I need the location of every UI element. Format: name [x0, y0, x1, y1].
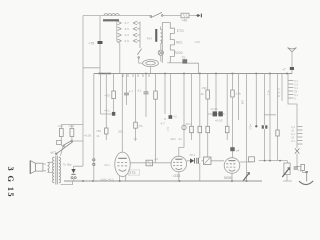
- inductor speaker voice coil: [48, 162, 50, 172]
- resistor R3b: [154, 91, 158, 99]
- svg-text:μ2: μ2: [155, 157, 159, 161]
- wire: x155.5 to V1: [130, 74, 171, 163]
- wire: x246.5 long branch: [246, 74, 248, 182]
- wire: V3 cathode lead: [231, 173, 233, 181]
- wire: bottom return bus: [64, 180, 262, 182]
- capacitor C5: [190, 126, 194, 132]
- svg-text:0,1: 0,1: [294, 79, 298, 83]
- wire: transformer top to switch: [61, 145, 64, 155]
- capacitor C18: [105, 128, 108, 134]
- svg-text:2k: 2k: [201, 92, 205, 96]
- wire: x277.5 branch: [277, 74, 279, 161]
- terminal strip TS1: [288, 81, 293, 99]
- terminal strip TS2: [297, 127, 302, 145]
- capacitor C12 antenna: [290, 67, 294, 70]
- wire: V1 cathode leads: [120, 176, 126, 181]
- svg-text:0,1: 0,1: [294, 86, 298, 90]
- svg-text:2·3: 2·3: [125, 33, 130, 37]
- svg-text:25: 25: [294, 90, 297, 94]
- wire: coil to transformer: [51, 162, 53, 172]
- wire: x207.7 resistor branch: [207, 74, 209, 158]
- svg-text:4n: 4n: [179, 137, 183, 141]
- svg-text:10: 10: [291, 129, 294, 133]
- wire: S3 to rail: [72, 140, 83, 142]
- wire: transformer bottom run: [61, 181, 73, 185]
- svg-text:2·0: 2·0: [125, 39, 130, 43]
- arrow volume control: [243, 173, 250, 182]
- wire: terminal trunk x288: [288, 74, 297, 149]
- switch S2 dial lamp: [137, 49, 141, 59]
- wire: bottom right link y160.6: [259, 160, 288, 162]
- svg-text:≈0,1: ≈0,1: [104, 109, 110, 113]
- svg-text:2,5: 2,5: [294, 83, 298, 87]
- svg-text:0,1: 0,1: [291, 125, 295, 129]
- capacitor C1: [98, 41, 103, 44]
- transformer T2 output: [53, 156, 61, 185]
- svg-text:20n: 20n: [186, 122, 191, 126]
- svg-text:5: 5: [294, 97, 296, 101]
- svg-text:3 G 15: 3 G 15: [6, 167, 15, 198]
- svg-text:20k: 20k: [118, 130, 123, 134]
- wire: x126.5 cap branch: [126, 74, 128, 106]
- pin circles below D1: [71, 177, 73, 179]
- wire: AVC line x100: [100, 74, 111, 115]
- node: crossing X: [295, 148, 300, 153]
- svg-text:0,1: 0,1: [291, 132, 295, 136]
- wire: TB to bus: [187, 63, 198, 73]
- svg-text:≈0,1: ≈0,1: [104, 163, 110, 167]
- pin circle on V2 anode line: [182, 125, 186, 129]
- svg-text:TB: TB: [182, 56, 186, 60]
- resistor R6: [301, 164, 305, 170]
- svg-text:4,7: 4,7: [161, 122, 166, 126]
- model label 3G15: [6, 167, 15, 198]
- wire: X to caps: [297, 154, 301, 167]
- potentiometer P1: [282, 163, 290, 177]
- svg-text:50: 50: [277, 94, 280, 98]
- switch S3 output: [63, 140, 73, 147]
- wire: x282 branch: [281, 74, 283, 102]
- transformer T1 tap column: [162, 23, 174, 63]
- wire: x146 cap branch: [145, 74, 147, 118]
- svg-text:ETO: ETO: [177, 29, 184, 33]
- svg-text:2W: 2W: [202, 86, 207, 90]
- svg-text:∫7k: ∫7k: [138, 124, 143, 128]
- wire: x93.8 drop from bus: [93, 74, 95, 182]
- svg-text:≈4: ≈4: [96, 134, 100, 138]
- wire: x165 branch: [164, 74, 166, 121]
- svg-text:≈0,1: ≈0,1: [249, 124, 253, 130]
- wire: antenna coupling drop x100: [99, 16, 101, 74]
- resistor R4: [206, 90, 210, 99]
- ground chassis symbol: [299, 171, 313, 184]
- inductor L1 mains choke: [103, 14, 119, 22]
- antenna A1: [288, 48, 297, 52]
- wire: x270 branch with elbow: [264, 74, 276, 161]
- wire: pot feed: [283, 161, 292, 181]
- wire: V3 right lead: [240, 161, 252, 163]
- svg-text:R200: R200: [175, 51, 183, 55]
- wire: to ground stem: [303, 171, 307, 173]
- svg-text:μ4: μ4: [236, 149, 240, 153]
- resistor R9: [59, 129, 63, 137]
- capacitor C14: [197, 158, 199, 164]
- wire: x191.5 branch: [191, 74, 193, 141]
- node: junction dot x256: [255, 125, 257, 127]
- svg-text:N0Ξ: N0Ξ: [176, 41, 183, 45]
- wire: decoupling link y114: [208, 113, 225, 115]
- wire: bus heavy segment: [99, 73, 111, 75]
- capacitor C13: [294, 167, 298, 169]
- junction stubs below bus: [123, 74, 149, 78]
- pin circles on x93.8: [93, 159, 95, 161]
- svg-text:4·0: 4·0: [125, 27, 130, 31]
- fuse F1: [181, 13, 189, 18]
- wire: x256.3 branch: [255, 74, 257, 126]
- lamp LP1 dial light: [158, 50, 163, 55]
- capacitor C8 electrolytic: [218, 111, 222, 116]
- wire: selector left feed: [119, 44, 121, 74]
- wire: x135.5 branch: [135, 74, 137, 142]
- wire: detector link: [187, 160, 225, 162]
- wire: x199.8 branch: [199, 74, 201, 182]
- value labels of TS2: [291, 125, 295, 143]
- svg-text:0,1: 0,1: [166, 127, 170, 131]
- capacitor C10: [230, 147, 234, 151]
- svg-text:1M: 1M: [241, 100, 245, 105]
- svg-text:≈0,05: ≈0,05: [84, 133, 92, 137]
- wire: tube V3 anode lead: [232, 74, 234, 158]
- svg-text:0,1: 0,1: [294, 93, 298, 97]
- wire: x264.5 branch: [264, 74, 266, 161]
- svg-text:20n: 20n: [171, 137, 176, 141]
- wire: x227.2 branch: [226, 74, 228, 141]
- svg-text:ZT3: ZT3: [129, 171, 135, 175]
- svg-text:2·7: 2·7: [125, 21, 130, 25]
- svg-text:≈2: ≈2: [174, 115, 178, 119]
- resistor R1: [112, 91, 116, 99]
- value labels on selector rows: [125, 21, 130, 43]
- node: mains plug terminal: [197, 14, 202, 18]
- svg-text:0,1: 0,1: [291, 139, 295, 143]
- resistor R7 hatched: [204, 157, 212, 164]
- wire: selector collector line: [137, 22, 140, 49]
- node: dots on link: [264, 160, 281, 162]
- capacitor C6: [206, 126, 210, 132]
- svg-text:15: 15: [291, 136, 294, 140]
- switch S1 mains: [150, 12, 163, 17]
- svg-text:≈0,05: ≈0,05: [215, 119, 223, 123]
- svg-text:≈50: ≈50: [105, 94, 110, 98]
- speaker LS1: [30, 161, 43, 174]
- capacitor C3: [144, 92, 149, 94]
- svg-text:4·7: 4·7: [129, 90, 134, 94]
- svg-text:R14: R14: [147, 37, 153, 41]
- capacitor C11 pair: [262, 125, 268, 128]
- wire: antenna stem: [291, 52, 293, 74]
- capacitor C19 blob: [169, 115, 173, 119]
- wire: housing to bus: [150, 67, 152, 74]
- capacitor C2: [124, 93, 129, 95]
- svg-text:≈Z33: ≈Z33: [173, 174, 181, 178]
- svg-text:≈50: ≈50: [96, 129, 101, 133]
- capacitor C21: [198, 126, 202, 132]
- wire: selector left rail: [117, 21, 120, 43]
- wire: left rail vertical: [82, 16, 84, 167]
- switch bank wave selector contacts: [118, 21, 138, 42]
- value labels left of x282: [277, 87, 281, 98]
- capacitor C20 blob: [112, 112, 115, 116]
- svg-text:Ty 0ky: Ty 0ky: [63, 162, 72, 166]
- switch S4 tone: [56, 142, 74, 155]
- diode D1: [71, 169, 75, 174]
- svg-text:≈0,05: ≈0,05: [210, 107, 218, 111]
- svg-text:≈40: ≈40: [182, 19, 188, 23]
- capacitor C9: [225, 126, 229, 132]
- wire: V2 cathode lead: [178, 172, 180, 181]
- wire: speaker to coil: [43, 162, 51, 172]
- svg-text:≈7: ≈7: [282, 68, 286, 72]
- wire: x238.6 branch: [238, 74, 240, 121]
- tube V2 AZ33: [171, 156, 187, 172]
- svg-text:≈10: ≈10: [195, 40, 200, 44]
- terminal box above transformer: [57, 141, 62, 145]
- lamp housing scale oval: [143, 60, 159, 67]
- wire: housing left lead: [139, 59, 143, 64]
- junction dots on bus: [100, 73, 288, 75]
- svg-text:≈75: ≈75: [89, 41, 95, 45]
- wire: x170.4 branch: [169, 74, 171, 116]
- wire: R9 R10 leads: [61, 125, 83, 147]
- wire: top horizontal mains lead: [83, 15, 200, 17]
- tube V1 ECH21: [115, 152, 130, 176]
- resistor TB barretter: [182, 59, 187, 63]
- svg-text:√R´1: √R´1: [189, 153, 196, 157]
- svg-text:5G50: 5G50: [224, 176, 232, 180]
- junction dots on bottom bus: [82, 180, 247, 182]
- wire: rail to bus link y67.8: [83, 67, 100, 69]
- capacitor C7 electrolytic: [213, 111, 217, 116]
- svg-text:2x: 2x: [277, 87, 280, 91]
- resistor R2: [134, 122, 138, 128]
- wire: V2 top lead: [179, 148, 184, 157]
- wire: L2 top stub: [160, 27, 162, 30]
- wire: tube V2 anode lead: [183, 74, 185, 148]
- wire: screen feed x114: [113, 74, 115, 112]
- capacitor C16: [276, 130, 279, 136]
- value labels of TS1: [294, 79, 298, 101]
- svg-text:0,1: 0,1: [277, 91, 281, 95]
- svg-text:√R: √R: [133, 137, 138, 141]
- svg-text:0,1: 0,1: [138, 89, 143, 93]
- tube V3 5G50: [224, 158, 240, 174]
- resistor R8: [249, 157, 255, 162]
- wire: tap column bottom run: [167, 62, 182, 64]
- resistor R5: [231, 90, 235, 97]
- diode D2: [190, 158, 195, 163]
- wire: main HT bus: [94, 73, 292, 75]
- capacitor C17 coupling: [146, 160, 153, 166]
- wire: tube V1 anode lead: [121, 74, 123, 153]
- resistor R10: [70, 129, 74, 137]
- wire: x106 branch: [105, 74, 107, 141]
- inductor L2 oscillator coil: [155, 29, 162, 44]
- wire: L2 bottom to lamp: [160, 44, 162, 50]
- wire: lamp to scale housing: [160, 55, 162, 61]
- wire: x216 from bus: [215, 74, 217, 112]
- wire: D1 leads: [74, 166, 84, 181]
